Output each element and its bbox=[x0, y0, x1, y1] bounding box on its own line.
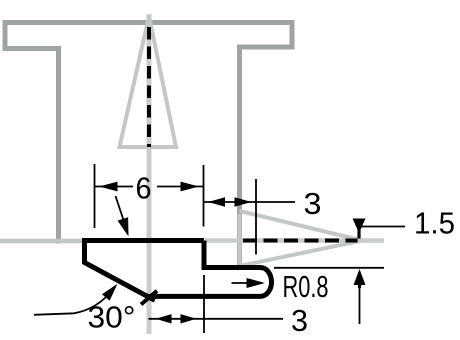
part outline T-shape (gray edges) bbox=[5, 23, 292, 266]
dim 6: leader line to profile top bbox=[116, 196, 125, 223]
dim 3 top: dimension line bbox=[204, 201, 296, 203]
dim 1.5: up arrow line bbox=[359, 284, 361, 324]
dim R0.8: leader line bbox=[232, 282, 251, 284]
dim 1.5: up arrow bbox=[354, 269, 366, 285]
horizontal cone preview (light gray) bbox=[240, 211, 363, 266]
dim 30deg: leader arrow bbox=[102, 284, 118, 301]
dim 30deg: corner X cross stroke bbox=[141, 291, 157, 305]
svg-text:R0.8: R0.8 bbox=[283, 269, 329, 304]
vertical dashed axis (black) bbox=[147, 27, 151, 147]
dim 3 bottom: dimension line bbox=[149, 318, 284, 320]
vertical centerline (light gray) bbox=[147, 14, 152, 334]
svg-text:6: 6 bbox=[136, 171, 152, 206]
surface line left (light gray) bbox=[0, 239, 88, 244]
svg-text:3: 3 bbox=[304, 186, 322, 221]
dim 6: leader arrow down bbox=[118, 217, 129, 236]
dim 6: dimension line right segment bbox=[157, 186, 203, 188]
dim 1.5: horizontal leader bbox=[359, 226, 405, 228]
svg-text:30°: 30° bbox=[88, 300, 136, 335]
dim 3 top: left arrow bbox=[208, 197, 225, 206]
vertical cone preview (light gray) bbox=[120, 16, 177, 147]
horizontal axis line (light gray) bbox=[205, 238, 384, 243]
dim 6: left extension line bbox=[94, 164, 96, 228]
dim 1.5: reference line extension of slot top bbox=[274, 267, 384, 269]
dim 6: dimension line left segment bbox=[95, 186, 133, 188]
sketch profile (black thick) bbox=[85, 241, 272, 297]
horizontal dashed axis (black) bbox=[243, 239, 358, 243]
dim 3 bottom: right arrow bbox=[181, 314, 197, 323]
dim 6: right arrow bbox=[181, 182, 200, 192]
dim R0.8: arrow bbox=[247, 278, 266, 288]
dim 30deg: leader curve bbox=[34, 289, 113, 315]
svg-text:3: 3 bbox=[291, 303, 308, 338]
dim 6: left arrow bbox=[99, 182, 118, 192]
dim 1.5: down arrow bbox=[353, 219, 366, 234]
dim 30deg: corner slant overshoot bbox=[148, 296, 155, 300]
dim 3 top: right arrow bbox=[235, 197, 252, 206]
dim 3 top: right extension line bbox=[255, 179, 257, 255]
dim 3 bottom: left arrow bbox=[156, 314, 172, 323]
dim 6/3: shared extension line at step bbox=[203, 165, 205, 227]
dim 3 bottom: extension line bbox=[203, 275, 205, 333]
svg-text:1.5: 1.5 bbox=[414, 206, 455, 241]
